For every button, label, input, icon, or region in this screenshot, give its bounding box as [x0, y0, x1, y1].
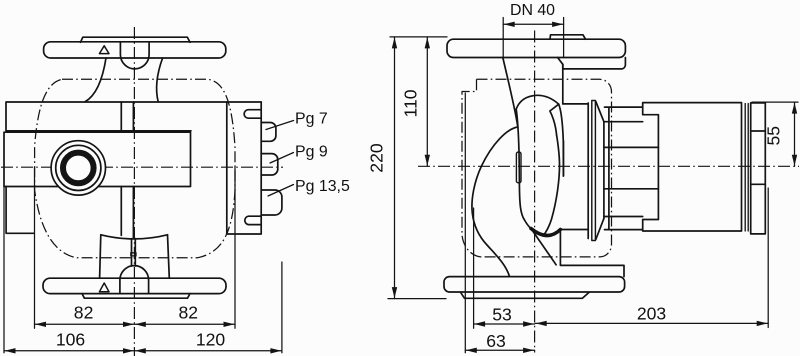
arrow 63 right: [523, 348, 534, 353]
arrow 82 left: [35, 322, 46, 327]
cable gland Pg9: [261, 154, 278, 175]
arrow DN40 left: [504, 22, 515, 27]
ext line 82/right: [234, 167, 236, 328]
stator ridge lines: [604, 122, 659, 217]
dome cusp: [550, 104, 559, 135]
dim line 55: [794, 102, 796, 166]
flange hub bottom: [563, 58, 626, 69]
volute flange face: [587, 103, 589, 239]
flange bar side: [447, 39, 625, 57]
top flange bar: [44, 42, 226, 58]
terminal box slot bottom: [245, 216, 261, 224]
lower body arc: [101, 235, 168, 239]
svg-text:106: 106: [56, 329, 86, 349]
end thin plate: [745, 104, 748, 232]
ext line 203 right: [767, 188, 769, 328]
flank curve right: [157, 58, 163, 102]
ext line bottom 220: [388, 298, 446, 300]
arrow 63 left: [466, 348, 477, 353]
bottom flange bar: [43, 278, 226, 293]
wire: vertical centerline left view: [133, 27, 135, 356]
wire: vertical centerline right view: [534, 31, 536, 353]
arrow 106 right: [123, 348, 134, 353]
lower pedestal flank left: [100, 235, 101, 278]
shaft lines lower: [121, 187, 133, 238]
lower pedestal flank right: [168, 235, 170, 278]
arrow 53 right: [523, 321, 534, 326]
svg-text:203: 203: [637, 304, 667, 324]
svg-text:220: 220: [367, 143, 387, 173]
vent triangle symbol bottom: [99, 283, 109, 292]
svg-text:82: 82: [179, 303, 199, 323]
ext line 53: [473, 208, 475, 328]
dim line 203: [535, 322, 768, 324]
ext line 82 left: [34, 167, 36, 328]
dim line 106: [4, 350, 134, 352]
right view bottom flange bar: [444, 277, 625, 292]
port circle thick ring: [63, 153, 94, 184]
insulation shell phantom right view: [462, 79, 612, 257]
impeller dome arc: [516, 95, 559, 109]
upper band rect: [6, 102, 261, 131]
dim line 110: [426, 37, 428, 166]
terminal box slot top: [244, 110, 261, 119]
pipe neck right line: [558, 58, 563, 65]
bottom flange plate: [82, 294, 190, 299]
arrow 82 right: [224, 322, 235, 327]
impeller tick plug: [516, 152, 521, 183]
cable gland Pg13.5: [261, 190, 282, 215]
impeller bottom smile arc: [531, 229, 560, 236]
terminal box: [227, 102, 261, 234]
arrow 203 right: [757, 321, 768, 326]
svg-text:63: 63: [486, 331, 506, 351]
arrow DN40 right: [552, 22, 563, 27]
ext line DN40 right: [563, 18, 565, 58]
motor terminal box side: [643, 103, 742, 231]
main body rect: [4, 132, 191, 186]
shaft end lines: [132, 239, 136, 266]
bearing spool face: [603, 122, 605, 219]
volute outer curve: [472, 127, 518, 277]
right view bottom flange plate: [461, 292, 590, 298]
wire: horizontal centerline right view: [418, 165, 799, 167]
svg-text:110: 110: [401, 89, 421, 117]
svg-text:Pg 9: Pg 9: [295, 143, 328, 160]
arrow 120 left: [135, 348, 146, 353]
dim line 63: [465, 349, 534, 351]
arrow 82 center-right: [135, 322, 146, 327]
svg-text:55: 55: [764, 126, 784, 146]
arrow 55 bottom: [792, 155, 797, 166]
flange top plate side: [550, 35, 586, 39]
dome left side: [516, 109, 531, 229]
leader line Pg9: [270, 153, 294, 164]
outlet slant line: [531, 229, 556, 265]
port circle ring2: [56, 145, 101, 190]
top flange plate: [81, 37, 191, 42]
inner curve A: [543, 135, 560, 236]
svg-text:82: 82: [74, 303, 94, 323]
leader line Pg7: [266, 121, 294, 130]
bearing spool bottom slant: [596, 218, 604, 239]
arrow 110 top: [425, 37, 430, 48]
ext line 120 right: [281, 262, 283, 353]
svg-text:53: 53: [492, 305, 512, 325]
ext line top 220/110: [390, 36, 447, 38]
ext line 106 left: [3, 187, 5, 353]
shaft lines upper: [121, 102, 133, 131]
arrow 120 right: [270, 348, 281, 353]
bottom hub dome: [120, 266, 149, 294]
arrow 220 bottom: [392, 287, 397, 298]
svg-text:120: 120: [196, 329, 226, 349]
pedestal foot: [560, 230, 624, 277]
ext line DN40 left: [502, 18, 504, 58]
ext line 63: [464, 93, 466, 353]
stator body: [605, 107, 643, 230]
casing step top: [563, 103, 588, 105]
bearing spool top slant: [596, 102, 604, 122]
gasket double line: [592, 101, 596, 241]
arrow 55 top: [792, 103, 797, 114]
flank curve left: [85, 58, 106, 102]
casing wall right vertical: [562, 64, 565, 176]
motor phantom outline (dash-dot) left view: [35, 79, 235, 257]
dim line 120: [134, 350, 282, 352]
arrow 82 center-left: [123, 322, 134, 327]
pump hub dome top: [120, 42, 149, 69]
pipe neck left line: [503, 58, 518, 128]
casing wall curve B: [559, 104, 564, 176]
port circle outer: [51, 141, 105, 195]
dim line 53: [474, 323, 535, 325]
arrow 220 top: [392, 37, 397, 48]
dim line 82-82: [35, 323, 236, 325]
nameplate lines: [751, 131, 766, 184]
shaft end notch: [131, 253, 136, 256]
vent triangle symbol top: [99, 46, 109, 54]
svg-text:Pg 13,5: Pg 13,5: [295, 178, 350, 195]
wire: horizontal centerline left view: [1, 166, 283, 168]
svg-text:Pg 7: Pg 7: [295, 110, 328, 127]
leader line Pg13.5: [268, 185, 294, 197]
body left lower edge: [6, 187, 34, 234]
dim line DN40: [503, 23, 563, 25]
dim line 220: [394, 37, 396, 299]
cable gland Pg7: [261, 123, 276, 142]
arrow 53 left: [474, 321, 485, 326]
arrow 106 left: [5, 348, 16, 353]
arrow 203 left: [536, 321, 547, 326]
motor bottom edge: [560, 229, 588, 231]
end cap: [751, 103, 766, 234]
svg-text:DN 40: DN 40: [510, 2, 555, 19]
arrow 110 bottom: [425, 155, 430, 166]
ext line 55 top: [752, 101, 798, 103]
